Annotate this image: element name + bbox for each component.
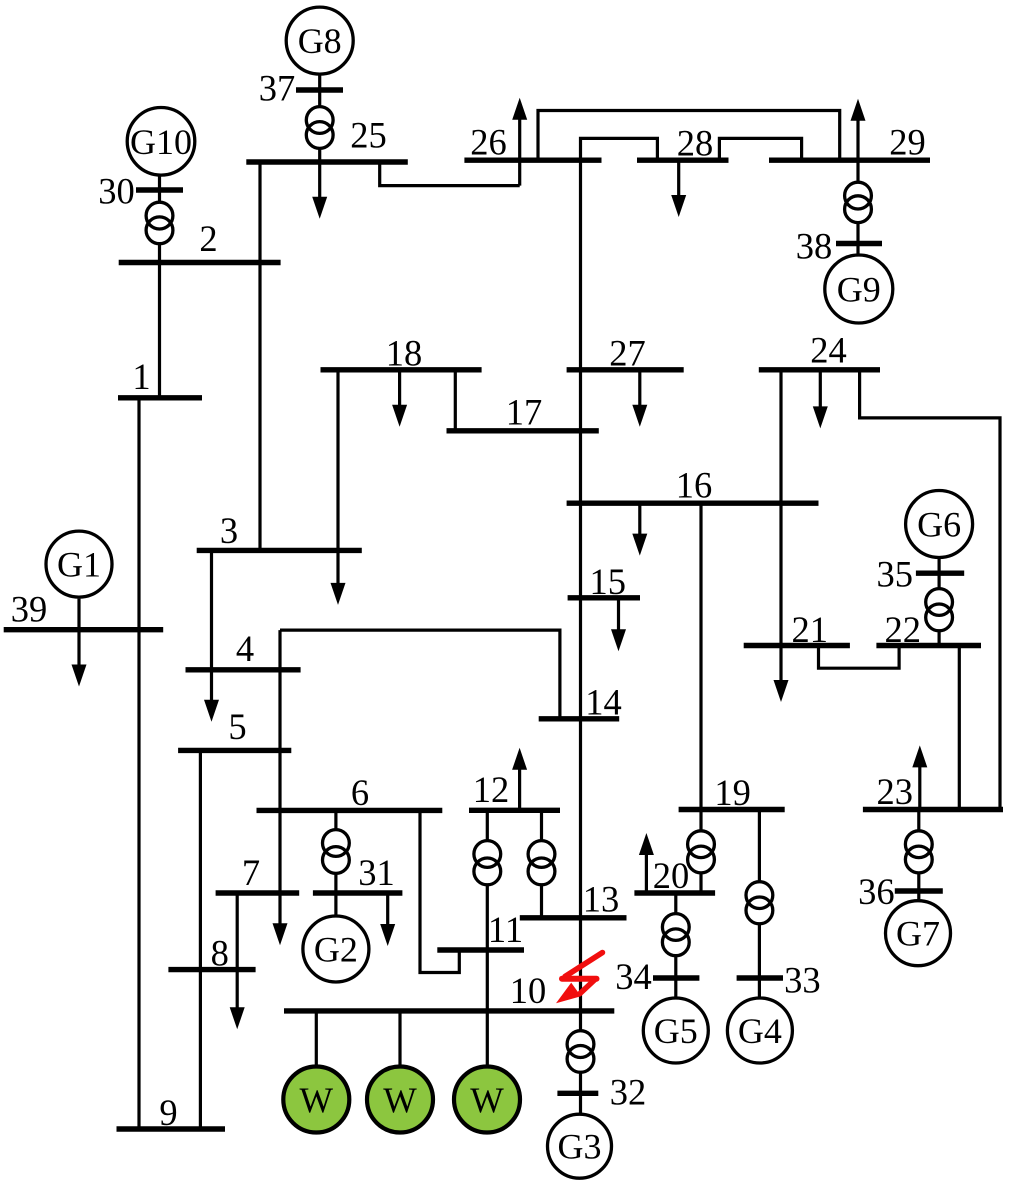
svg-text:W: W	[470, 1080, 504, 1120]
svg-text:5: 5	[228, 706, 246, 747]
svg-text:G10: G10	[130, 122, 192, 162]
svg-text:1: 1	[132, 356, 150, 397]
svg-text:4: 4	[236, 628, 254, 669]
svg-text:23: 23	[876, 771, 913, 812]
svg-text:20: 20	[653, 855, 690, 896]
svg-text:9: 9	[159, 1092, 177, 1133]
svg-text:33: 33	[784, 960, 821, 1001]
svg-text:14: 14	[585, 682, 622, 723]
svg-text:32: 32	[610, 1072, 647, 1113]
svg-text:8: 8	[211, 933, 229, 974]
svg-text:25: 25	[350, 115, 387, 156]
svg-text:W: W	[300, 1080, 334, 1120]
svg-text:13: 13	[583, 879, 620, 920]
svg-text:G9: G9	[837, 270, 881, 310]
svg-text:G2: G2	[314, 930, 358, 970]
svg-text:26: 26	[470, 122, 507, 163]
svg-text:39: 39	[11, 589, 48, 630]
svg-text:6: 6	[351, 772, 369, 813]
svg-text:3: 3	[220, 510, 238, 551]
svg-text:34: 34	[615, 956, 652, 997]
svg-text:31: 31	[358, 852, 395, 893]
svg-text:W: W	[383, 1080, 417, 1120]
svg-text:15: 15	[590, 561, 627, 602]
svg-text:29: 29	[889, 122, 926, 163]
svg-text:G4: G4	[738, 1011, 782, 1051]
svg-text:10: 10	[510, 970, 547, 1011]
svg-text:11: 11	[488, 909, 523, 950]
svg-text:G1: G1	[57, 545, 101, 585]
svg-text:19: 19	[714, 772, 751, 813]
svg-text:7: 7	[242, 852, 260, 893]
svg-text:21: 21	[792, 609, 829, 650]
svg-text:35: 35	[876, 554, 913, 595]
svg-text:G7: G7	[896, 914, 940, 954]
svg-text:12: 12	[473, 769, 510, 810]
svg-text:17: 17	[506, 392, 543, 433]
svg-text:G3: G3	[558, 1127, 602, 1167]
svg-text:G8: G8	[298, 21, 342, 61]
svg-text:37: 37	[259, 68, 296, 109]
svg-text:24: 24	[810, 330, 847, 371]
svg-text:30: 30	[98, 171, 135, 212]
svg-text:22: 22	[885, 609, 922, 650]
svg-text:28: 28	[677, 123, 714, 164]
svg-text:27: 27	[609, 333, 646, 374]
svg-text:2: 2	[199, 218, 217, 259]
svg-text:G6: G6	[917, 505, 961, 545]
svg-text:18: 18	[386, 333, 423, 374]
svg-text:38: 38	[796, 226, 833, 267]
svg-text:36: 36	[858, 871, 895, 912]
svg-text:16: 16	[676, 465, 713, 506]
svg-text:G5: G5	[654, 1011, 698, 1051]
